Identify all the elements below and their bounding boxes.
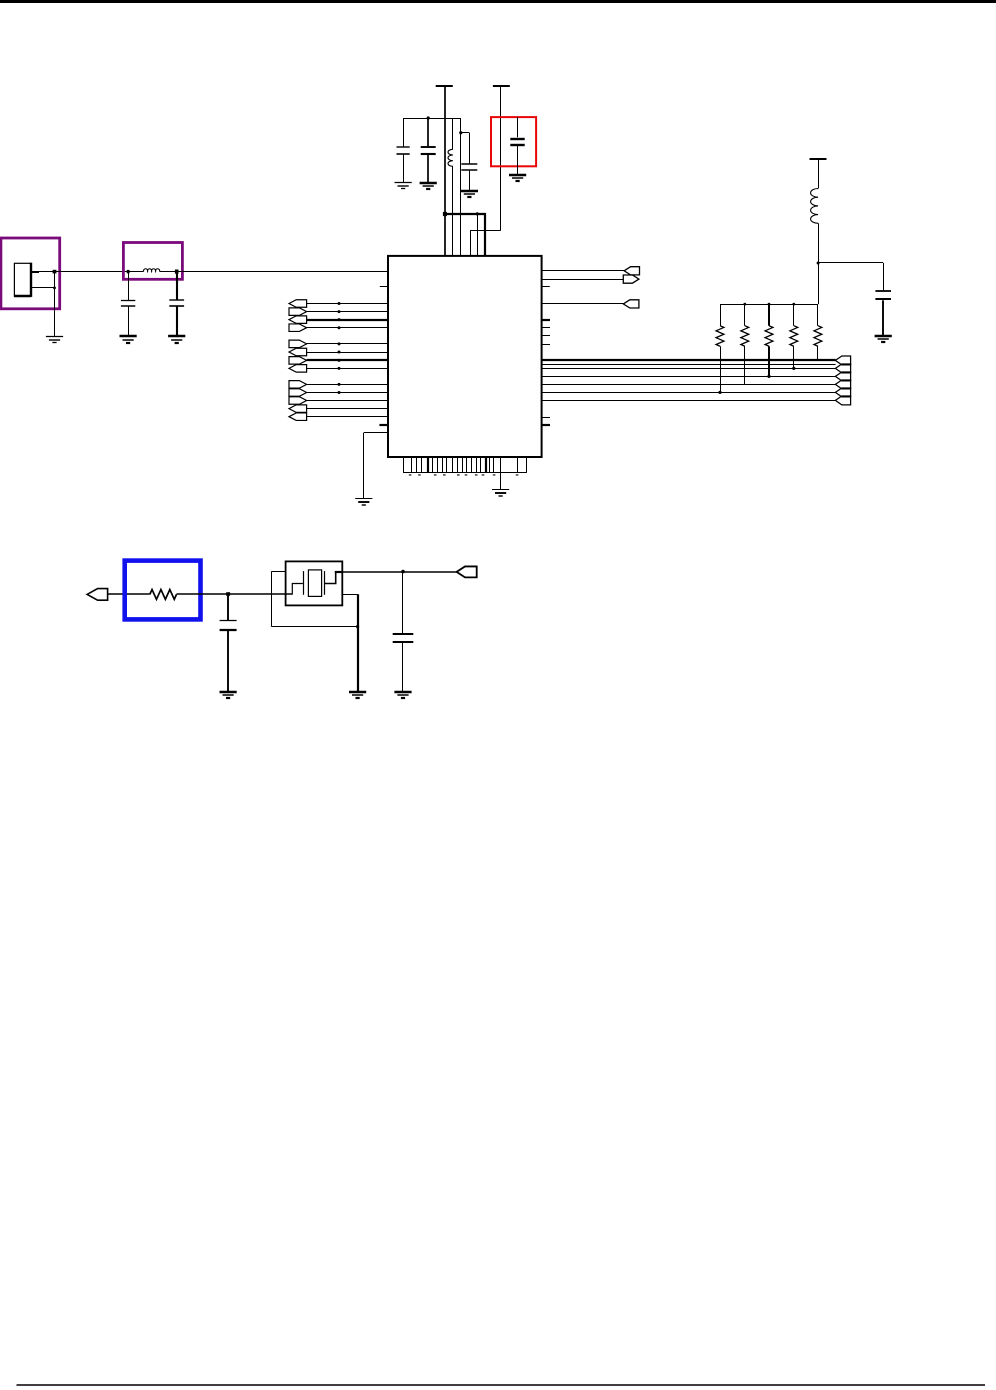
pull-up rail xyxy=(720,304,818,306)
port arrow/wire left y=416.7 xyxy=(289,413,307,421)
node loop-ground dot xyxy=(356,625,359,628)
capacitor C7 xyxy=(875,290,891,292)
port arrow/wire left y=400.5 xyxy=(289,397,307,405)
crystal Y1 right electrode xyxy=(324,571,326,595)
wire arrow to R6 xyxy=(108,593,150,595)
wire branch right leg xyxy=(460,118,462,256)
inductor L2 xyxy=(811,189,819,224)
node cap tap square dot xyxy=(226,592,230,596)
wire crystal output xyxy=(342,571,456,573)
ground G10 xyxy=(492,490,509,497)
crystal box Y1 xyxy=(286,561,343,605)
node J1 pin2 dot xyxy=(53,287,56,290)
power rail VDD2 bar xyxy=(493,85,510,87)
port arrow/wire left y=408.6 xyxy=(289,405,307,413)
series resistor highlight box (blue) xyxy=(125,561,201,620)
wire bottom pins to ground xyxy=(500,473,502,490)
port arrow/wire left y=311.6 xyxy=(289,308,307,316)
wire VDD2 stem xyxy=(500,86,502,231)
wire L1 out to IC xyxy=(160,271,388,273)
wire J1 pin2 xyxy=(31,287,55,289)
ground G8 xyxy=(355,499,372,506)
output wire right 1 xyxy=(542,270,625,272)
port arrow out2 xyxy=(623,275,639,283)
capacitor C4 xyxy=(421,146,436,148)
capacitor C6 lead xyxy=(517,117,519,137)
output wire right 2 xyxy=(542,279,624,281)
page top black bar xyxy=(0,0,996,3)
ground G1 xyxy=(46,337,63,343)
bypass highlight box (red) xyxy=(491,117,536,166)
node N1 dot xyxy=(127,270,130,273)
IC U1 xyxy=(388,256,542,457)
crystal Y1 left bracket xyxy=(292,584,303,595)
node L2 branch dot xyxy=(817,262,820,265)
power rail VDD3 bar xyxy=(810,158,827,160)
capacitor C8 xyxy=(220,620,237,622)
pin stub right f (thick) xyxy=(542,424,550,426)
resistor R5 xyxy=(817,304,819,326)
filter highlight box (purple) xyxy=(123,243,182,280)
wire bus to IC pin xyxy=(477,214,479,256)
pin stub right b xyxy=(542,327,550,329)
ground G11 xyxy=(220,692,237,698)
wire J1 pin1 stub xyxy=(31,271,39,273)
capacitor C1 xyxy=(121,300,135,302)
wire decoupling rail xyxy=(403,118,461,120)
inductor L1 xyxy=(144,269,160,272)
node branch dot xyxy=(459,131,462,134)
ground G12 xyxy=(349,692,366,698)
connector J1 body xyxy=(14,263,30,296)
node bus pin dot xyxy=(476,212,479,215)
capacitor C4 lead xyxy=(427,118,429,147)
port arrow bottom-left xyxy=(87,589,108,601)
capacitor C6 (bold) xyxy=(510,138,524,140)
ground G7 xyxy=(509,175,526,181)
node N2 dot xyxy=(175,270,179,274)
pin stub right a (thick) xyxy=(542,319,550,321)
wire VDD1 stem (thick) xyxy=(444,86,446,256)
ground G2 xyxy=(120,336,137,343)
capacitor C1 lead xyxy=(128,272,130,301)
port arrow/wire left y=384.4 xyxy=(289,381,307,389)
port arrow/wire left y=352.0 xyxy=(289,348,307,356)
capacitor C1 lower lead xyxy=(128,307,130,337)
crystal Y1 right bracket xyxy=(325,572,336,584)
power bus (thick) xyxy=(444,213,486,215)
wire to C5 xyxy=(461,132,470,134)
wire XTAL-in net xyxy=(55,271,144,273)
crystal Y1 plate rect xyxy=(308,570,321,597)
wire to C7 xyxy=(818,262,883,264)
output wire right 3 xyxy=(542,303,624,305)
resistor R2 xyxy=(744,304,746,326)
port arrow/wire left y=360.4 xyxy=(289,357,307,365)
port arrow out1 xyxy=(624,267,639,275)
node decoupling dot xyxy=(427,116,430,119)
wire J1 to ground xyxy=(54,272,56,337)
port arrow/wire left y=343.9 xyxy=(289,340,307,348)
capacitor C7 lower lead xyxy=(882,300,884,335)
crystal Y1 left electrode xyxy=(303,571,305,595)
capacitor C9 xyxy=(393,633,414,635)
IC bottom pins xyxy=(403,457,405,473)
wire L2 down xyxy=(818,223,820,304)
capacitor C6 lower lead xyxy=(517,146,519,175)
resistor R6 xyxy=(150,590,177,600)
footer rule xyxy=(17,1384,986,1386)
wire crystal source out xyxy=(342,594,357,596)
port arrow/wire left y=327.7 xyxy=(289,324,307,332)
wire crystal loop top xyxy=(271,571,285,573)
capacitor C2 lead xyxy=(176,272,178,301)
resistor R1 xyxy=(720,304,722,326)
wire crystal loop left xyxy=(271,571,273,626)
capacitor C2 lower lead xyxy=(176,307,178,337)
wire R6 to crystal xyxy=(177,593,293,595)
capacitor C2 xyxy=(169,299,184,301)
capacitor C4 lower lead xyxy=(427,154,429,183)
wire FB1 to IC xyxy=(452,166,454,256)
pin stub right e xyxy=(542,417,550,419)
bus port arrow stack xyxy=(835,356,850,365)
node bus-stem square dot xyxy=(443,212,447,216)
capacitor C3 lower lead xyxy=(403,154,405,182)
node output dot xyxy=(401,570,405,574)
resistor R3 xyxy=(768,304,770,326)
wire bus corner to IC (thick) xyxy=(484,213,486,256)
wire jog to IC pin xyxy=(470,231,472,256)
pin stub right upper xyxy=(542,286,550,288)
capacitor C9 lead xyxy=(402,572,404,634)
ground G9 xyxy=(875,336,892,342)
port arrow/wire left y=392.5 xyxy=(289,389,307,397)
pin stub right d xyxy=(542,344,550,346)
resistor R4 xyxy=(793,304,795,326)
capacitor C9 lower lead xyxy=(402,643,404,693)
ground G6 xyxy=(461,191,478,197)
pin stub right c xyxy=(542,335,550,337)
pin stub left upper xyxy=(380,286,388,288)
wire source to ground (thick) xyxy=(357,594,359,692)
capacitor C8 lead xyxy=(227,594,229,620)
pin end marks xyxy=(409,474,412,475)
crystal Y1 out stub (thick) xyxy=(335,571,343,573)
capacitor C8 lower lead xyxy=(227,630,229,692)
wire VDD2 jog xyxy=(470,230,500,232)
port arrow/wire left y=368.4 xyxy=(289,365,307,373)
wire crystal loop bottom xyxy=(271,626,357,628)
port arrow bottom-right xyxy=(457,566,477,577)
wire J1 pin1 to node xyxy=(38,271,55,273)
connector highlight box (purple) xyxy=(1,238,60,309)
ground G13 xyxy=(394,692,411,698)
port arrow out3 xyxy=(623,300,639,308)
wire ferrite branch xyxy=(452,118,454,149)
IC bottom pin bus xyxy=(403,472,526,474)
capacitor C3 xyxy=(397,146,410,148)
power rail VDD1 bar xyxy=(436,85,453,87)
bus wires to header xyxy=(542,359,836,361)
capacitor C3 lead xyxy=(403,118,405,147)
ferrite bead FB1 xyxy=(448,149,453,166)
wire IC left to ground xyxy=(364,432,388,434)
ground G4 xyxy=(395,183,412,189)
pin stub left lower (thick) xyxy=(379,424,388,426)
port arrow/wire left y=319.6 xyxy=(289,316,307,324)
wire VDD3 stem xyxy=(818,159,820,189)
node J1 junction dot xyxy=(53,270,57,274)
port arrow/wire left y=303.5 xyxy=(289,300,307,308)
ground G5 xyxy=(420,183,437,189)
ground G3 xyxy=(168,336,185,343)
capacitor C5 xyxy=(461,163,477,165)
capacitor C5 lower lead xyxy=(469,170,471,191)
